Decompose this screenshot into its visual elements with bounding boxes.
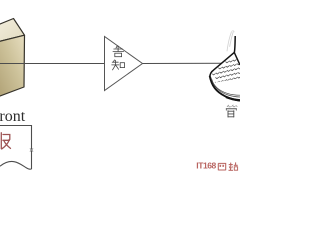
laptop base white fill: [210, 36, 240, 101]
document shape: [0, 126, 32, 170]
svg-text:Front: Front: [0, 108, 26, 125]
cube (left, cut off) top face: [0, 19, 25, 42]
red 报 partial: [1, 133, 10, 149]
label 告: [113, 46, 124, 57]
label 知: [112, 60, 125, 70]
svg-text:IT168: IT168: [196, 161, 216, 171]
wire triangle to laptop: [143, 62, 227, 64]
triangle (notify): [105, 37, 143, 91]
laptop screen light lines: [227, 31, 234, 52]
laptop base outline: [210, 76, 240, 101]
laptop keys: [212, 58, 244, 87]
laptop dark screen edge: [210, 36, 235, 76]
connection x marker: [30, 148, 33, 151]
cube front face: [0, 35, 25, 96]
laptop base inner band lines: [211, 78, 240, 96]
label 管 under laptop: [226, 105, 237, 117]
站: [229, 162, 238, 170]
wire cube to triangle: [0, 63, 105, 65]
网: [218, 163, 225, 170]
